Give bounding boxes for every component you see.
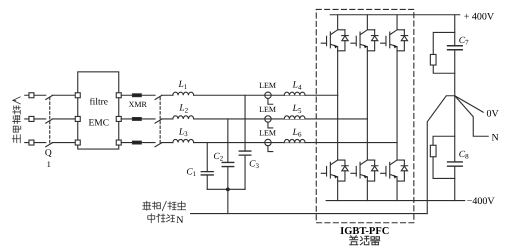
label 整流器	[350, 236, 380, 245]
svg-text:N: N	[492, 133, 499, 144]
node fan: neutral tie	[427, 96, 455, 214]
inductor L3	[173, 139, 194, 142]
wires fuses to switch 2	[141, 95, 155, 142]
capacitor C3 branch (from row1)	[244, 95, 246, 189]
switch 2 blades	[155, 95, 162, 146]
fuse XMR row3	[132, 141, 141, 144]
svg-text:C1: C1	[186, 167, 196, 178]
filtre EMC box	[78, 72, 119, 149]
wires EMC to XMR fuses	[121, 95, 132, 142]
svg-text:C8: C8	[459, 150, 469, 161]
switch 2 dashed linkage	[159, 97, 161, 144]
inductor L2	[173, 116, 194, 119]
input stubs	[25, 95, 29, 142]
svg-text:LEM: LEM	[259, 128, 276, 137]
IGBT U3 (top, phase 3)	[381, 15, 408, 143]
switch Q1 blades	[46, 95, 53, 146]
DC bus main vertical	[454, 15, 456, 201]
svg-text:L4: L4	[292, 80, 302, 91]
wires switch 2 to inductors	[162, 95, 173, 142]
switch Q1 dashed linkage	[49, 97, 51, 144]
svg-text:C3: C3	[249, 159, 259, 170]
label 旁路/输出	[143, 201, 186, 211]
LEM sensor row1	[265, 92, 271, 98]
svg-text:N: N	[176, 215, 183, 226]
IGBT U4 (bottom, phase 1)	[321, 95, 348, 200]
wire junction to neutral line	[227, 189, 229, 213]
svg-text:L3: L3	[178, 127, 188, 138]
DC- bottom rail	[326, 200, 465, 202]
label 中性线N	[148, 214, 184, 226]
IGBT U5 (bottom, phase 2)	[351, 119, 378, 201]
svg-text:Q: Q	[45, 148, 52, 158]
svg-text:−400V: −400V	[467, 196, 496, 207]
neutral bypass line	[191, 213, 428, 215]
wires switch Q1 to filtre EMC	[52, 95, 75, 142]
C8 bleed resistor branch	[433, 136, 455, 178]
C7 bleed resistor branch	[433, 32, 455, 73]
svg-text:C7: C7	[459, 36, 469, 47]
svg-text:IGBT-PFC: IGBT-PFC	[340, 226, 389, 237]
inductor L4	[284, 92, 305, 95]
LEM sensor row3	[265, 139, 271, 145]
fuse XMR row1	[132, 94, 141, 97]
inductor L5	[284, 116, 305, 119]
IGBT U1 (top, phase 1)	[321, 15, 348, 96]
svg-text:filtre: filtre	[90, 97, 108, 107]
IGBT U6 (bottom, phase 3)	[381, 143, 408, 201]
svg-text:L6: L6	[292, 128, 302, 139]
inductor L1	[173, 92, 194, 95]
svg-text:LEM: LEM	[259, 105, 276, 114]
svg-text:0V: 0V	[487, 109, 500, 120]
svg-text:L1: L1	[177, 80, 187, 91]
wire row3 L3 to bridge	[194, 142, 397, 144]
node fan: N line	[455, 96, 489, 137]
IGBT U2 (top, phase 2)	[351, 15, 378, 119]
capacitor C7 plates	[448, 46, 463, 50]
capacitor C2 branch (from row2)	[227, 119, 229, 189]
capacitor C1 branch (from row3)	[206, 143, 208, 190]
wire row1 L1 to bridge	[194, 94, 338, 96]
svg-text:LEM: LEM	[259, 81, 276, 90]
IGBT-PFC dashed box	[316, 9, 414, 222]
svg-text:L2: L2	[178, 104, 188, 115]
svg-text:EMC: EMC	[88, 118, 109, 128]
input terminal squares	[29, 93, 34, 145]
wires input to switch Q1	[34, 95, 46, 142]
svg-text:L5: L5	[292, 104, 302, 115]
capacitor C8 plates	[448, 162, 463, 166]
DC+ top rail	[330, 14, 460, 16]
junction dot	[226, 187, 230, 191]
svg-text:1: 1	[47, 159, 51, 169]
fuse XMR row2	[132, 118, 141, 121]
svg-text:+ 400V: + 400V	[464, 11, 495, 22]
wire row2 L2 to bridge	[194, 118, 368, 120]
LEM sensor row2	[265, 116, 271, 122]
filtre EMC terminal squares	[75, 93, 121, 145]
capacitor common bus	[207, 188, 245, 190]
label 主电源输入 (vertical text, rotated)	[12, 97, 21, 143]
inductor L6	[284, 139, 305, 142]
node fan: 0V line	[455, 96, 484, 113]
svg-text:XMR: XMR	[129, 100, 148, 109]
svg-text:C2: C2	[213, 152, 223, 163]
